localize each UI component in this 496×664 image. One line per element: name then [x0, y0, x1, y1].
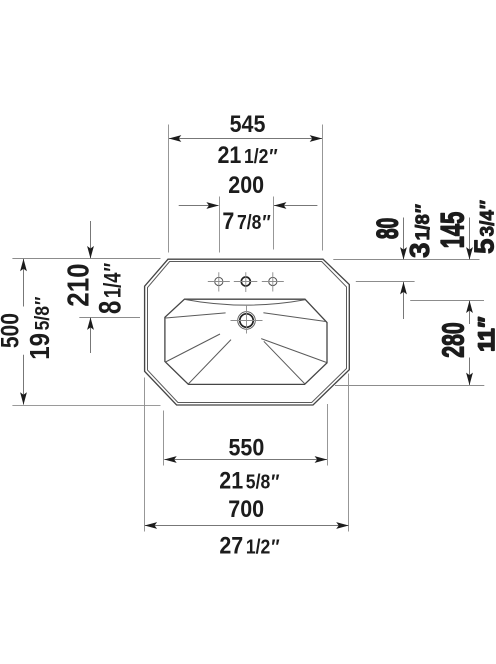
- center faucet hole crosshair: [234, 272, 257, 292]
- basin fold line lower-left a: [166, 334, 221, 362]
- dimension line 80 lower tail: [403, 282, 405, 319]
- svg-text:80: 80: [372, 218, 404, 239]
- arrow 500 top: [20, 259, 27, 272]
- svg-text:280: 280: [436, 322, 471, 357]
- svg-text:81/4″: 81/4″: [91, 263, 127, 314]
- svg-text:53/4″: 53/4″: [469, 200, 496, 254]
- label 700: [228, 495, 264, 523]
- label 200: [228, 171, 264, 199]
- dimension line 210 upper tail: [90, 221, 92, 258]
- label 500 rotated: [0, 313, 24, 348]
- label 5 3/4 inch rotated: [469, 200, 496, 254]
- svg-text:211/2″: 211/2″: [217, 141, 277, 169]
- label 27 1/2 inch: [219, 531, 279, 559]
- arrow 545 left: [169, 135, 182, 142]
- extension line 545 left: [168, 125, 170, 253]
- extension line 500 bottom left: [12, 404, 160, 406]
- label 80 rotated: [372, 218, 404, 239]
- label 210 rotated: [62, 263, 95, 306]
- dimension line 80 upper tail: [403, 218, 405, 260]
- washbasin outer rim octagon: [145, 259, 350, 405]
- left faucet hole crosshair: [208, 272, 230, 291]
- extension line 200 right: [273, 197, 275, 250]
- extension line top edge left: [12, 258, 160, 260]
- svg-text:545: 545: [230, 110, 266, 138]
- extension line basin top right: [410, 300, 484, 302]
- extension line top edge right: [333, 259, 479, 261]
- center faucet hole: [241, 277, 250, 286]
- svg-text:550: 550: [228, 433, 264, 461]
- arrow 280 bottom: [466, 373, 473, 386]
- basin fold line upper-left b: [166, 313, 226, 318]
- arrow 210 bottom: [87, 317, 94, 330]
- washbasin inner rim line: [148, 262, 347, 403]
- arrow 545 right: [310, 135, 323, 142]
- basin fold line lower-right a: [261, 339, 326, 363]
- left faucet hole: [215, 277, 223, 285]
- dimension line 500 upper: [23, 259, 25, 307]
- svg-text:31/8″: 31/8″: [404, 204, 435, 258]
- label 280 rotated: [436, 322, 471, 357]
- svg-text:11″: 11″: [474, 316, 496, 351]
- extension line 700 left: [144, 378, 146, 532]
- dimension line 200 right tail: [274, 205, 317, 207]
- label 21 1/2 inch: [217, 141, 277, 169]
- extension line 700 right: [348, 374, 350, 532]
- drain crosshair: [231, 305, 263, 334]
- svg-text:200: 200: [228, 171, 264, 199]
- dimension line 550: [164, 459, 327, 461]
- inner basin octagon: [165, 299, 327, 384]
- arrow 200 right: [274, 202, 287, 209]
- svg-text:210: 210: [62, 263, 95, 306]
- extension line 550 left: [163, 411, 165, 466]
- arrow 80 bottom: [400, 282, 407, 295]
- dimension line 145 upper tail: [469, 218, 471, 260]
- dimension line 700: [145, 525, 349, 527]
- right faucet hole crosshair: [262, 272, 284, 291]
- extension line 545 right: [322, 125, 324, 251]
- svg-text:215/8″: 215/8″: [219, 466, 279, 494]
- svg-text:700: 700: [228, 495, 264, 523]
- arrow 200 left: [206, 202, 219, 209]
- basin fold line lower-left b: [188, 340, 231, 384]
- svg-text:500: 500: [0, 313, 24, 348]
- arrow 210 top: [87, 246, 94, 259]
- svg-text:195/8″: 195/8″: [23, 297, 55, 360]
- right faucet hole: [269, 277, 277, 285]
- arrow 550 left: [164, 456, 177, 463]
- arrow 700 left: [145, 522, 158, 529]
- arrow 700 right: [336, 522, 349, 529]
- extension line basin bottom right: [335, 385, 484, 387]
- extension line faucet axis right: [356, 281, 415, 283]
- dimension line 545: [169, 138, 322, 140]
- basin fold line lower-right b: [264, 341, 305, 384]
- label 19 5/8 inch rotated: [23, 297, 55, 360]
- dimension line 500 lower: [23, 355, 25, 405]
- extension line 550 right: [327, 404, 329, 466]
- label 11 inch rotated: [474, 316, 496, 351]
- label 545: [230, 110, 266, 138]
- extension line 210 bottom left: [79, 317, 140, 319]
- label 8 1/4 inch rotated: [91, 263, 127, 314]
- label 3 1/8 inch rotated: [404, 204, 435, 258]
- label 145 rotated: [434, 212, 470, 248]
- basin deck lip curve: [185, 299, 306, 305]
- dimension line 280 upper: [469, 301, 471, 324]
- label 7 7/8 inch: [222, 207, 270, 235]
- basin fold line upper-right b: [263, 313, 325, 322]
- label 550: [228, 433, 264, 461]
- dimension line 200 left tail: [179, 205, 219, 207]
- arrow 500 bottom: [20, 392, 27, 405]
- svg-text:145: 145: [434, 212, 470, 248]
- label 21 5/8 inch: [219, 466, 279, 494]
- dimension line 280 lower: [469, 358, 471, 386]
- extension line 200 left: [219, 197, 221, 253]
- svg-text:271/2″: 271/2″: [219, 531, 279, 559]
- arrow 550 right: [315, 456, 328, 463]
- dimension line 210 lower tail: [90, 318, 92, 353]
- drain outer circle: [238, 312, 256, 330]
- arrow 280 top: [466, 301, 473, 314]
- drain inner circle: [240, 314, 253, 327]
- arrow 145 top: [466, 247, 473, 260]
- svg-text:77/8″: 77/8″: [222, 207, 270, 235]
- arrow 80 top: [400, 247, 407, 260]
